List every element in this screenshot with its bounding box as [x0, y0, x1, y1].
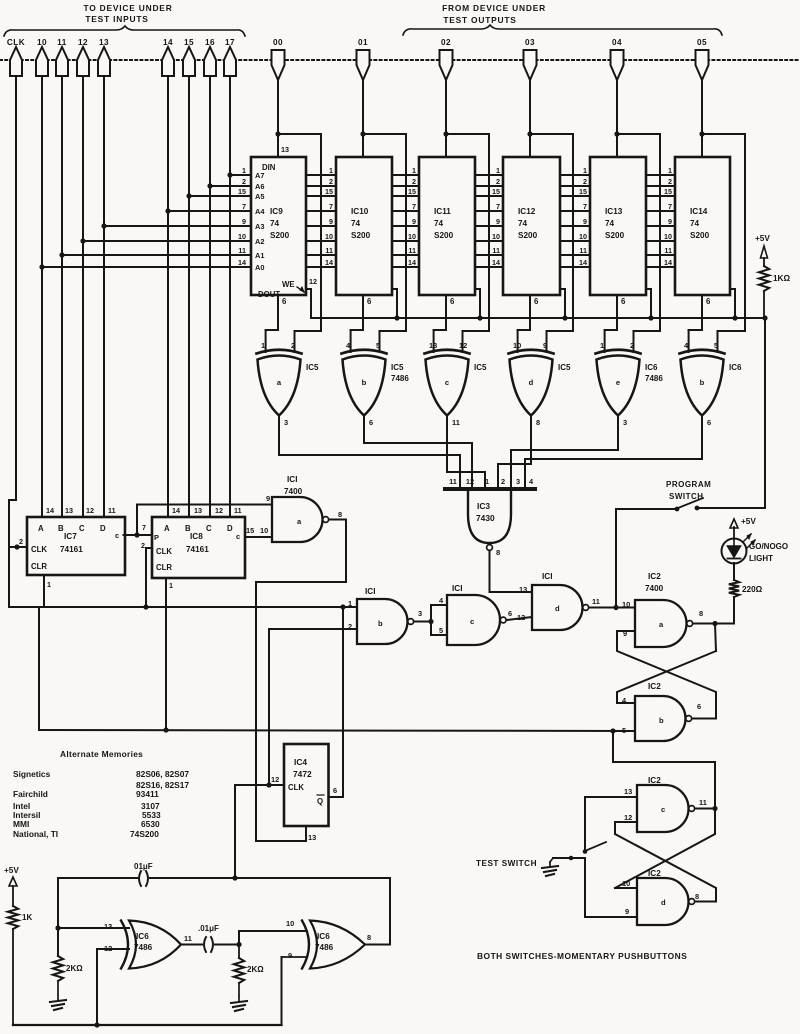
svg-text:7: 7 [412, 202, 416, 211]
svg-text:5: 5 [439, 626, 443, 635]
svg-text:b: b [659, 716, 664, 725]
svg-text:2: 2 [329, 177, 333, 186]
svg-text:10: 10 [238, 232, 246, 241]
svg-text:IC5: IC5 [391, 363, 404, 372]
svg-text:05: 05 [697, 38, 707, 47]
svg-text:12: 12 [215, 506, 223, 515]
svg-text:15: 15 [664, 187, 672, 196]
svg-text:IC2: IC2 [648, 869, 661, 878]
svg-text:13: 13 [194, 506, 202, 515]
svg-text:10: 10 [286, 919, 294, 928]
svg-text:7486: 7486 [391, 374, 409, 383]
svg-text:11: 11 [325, 246, 333, 255]
svg-text:IC8: IC8 [190, 532, 203, 541]
svg-text:A5: A5 [255, 192, 264, 201]
svg-text:11: 11 [579, 246, 587, 255]
svg-text:7: 7 [583, 202, 587, 211]
svg-text:IC13: IC13 [605, 207, 623, 216]
svg-text:CLR: CLR [31, 562, 47, 571]
svg-text:74: 74 [605, 219, 615, 228]
svg-text:8: 8 [367, 933, 371, 942]
svg-text:6: 6 [450, 297, 455, 306]
svg-text:14: 14 [492, 258, 500, 267]
svg-text:14: 14 [408, 258, 416, 267]
svg-text:10: 10 [622, 600, 630, 609]
svg-text:b: b [362, 378, 367, 387]
svg-text:13: 13 [429, 341, 437, 350]
svg-text:12: 12 [309, 277, 317, 286]
svg-text:74161: 74161 [186, 545, 209, 554]
svg-text:+5V: +5V [755, 234, 770, 243]
svg-text:IC6: IC6 [645, 363, 658, 372]
svg-text:Q: Q [317, 797, 323, 806]
svg-text:TEST OUTPUTS: TEST OUTPUTS [443, 15, 516, 25]
svg-text:A7: A7 [255, 171, 264, 180]
svg-text:d: d [555, 604, 560, 613]
svg-text:12: 12 [624, 813, 632, 822]
svg-text:IC6: IC6 [136, 932, 149, 941]
svg-text:11: 11 [492, 246, 500, 255]
svg-text:2: 2 [583, 177, 587, 186]
svg-text:IC2: IC2 [648, 682, 661, 691]
svg-text:IC10: IC10 [351, 207, 369, 216]
svg-text:8: 8 [695, 892, 699, 901]
svg-text:12: 12 [459, 341, 467, 350]
svg-text:2: 2 [242, 177, 246, 186]
svg-text:10: 10 [260, 526, 268, 535]
svg-text:11: 11 [592, 597, 600, 606]
svg-text:3: 3 [284, 418, 288, 427]
svg-text:8: 8 [536, 418, 540, 427]
svg-text:1: 1 [169, 581, 173, 590]
svg-text:9: 9 [543, 341, 547, 350]
svg-text:10: 10 [325, 232, 333, 241]
svg-text:1: 1 [261, 341, 265, 350]
svg-text:3: 3 [516, 477, 520, 486]
svg-text:13: 13 [281, 145, 289, 154]
svg-text:2KΩ: 2KΩ [247, 965, 264, 974]
svg-text:+5V: +5V [4, 866, 19, 875]
svg-text:c: c [470, 617, 474, 626]
svg-text:A: A [38, 524, 44, 533]
svg-text:9: 9 [266, 494, 270, 503]
svg-text:14: 14 [664, 258, 672, 267]
svg-text:MMI: MMI [13, 819, 29, 829]
svg-text:TO DEVICE UNDER: TO DEVICE UNDER [83, 3, 172, 13]
svg-text:D: D [227, 524, 233, 533]
svg-text:7486: 7486 [315, 943, 334, 952]
svg-text:1K: 1K [22, 913, 32, 922]
svg-text:13: 13 [65, 506, 73, 515]
svg-text:1: 1 [496, 166, 500, 175]
svg-text:7: 7 [668, 202, 672, 211]
svg-text:IC5: IC5 [306, 363, 319, 372]
svg-text:74: 74 [270, 219, 280, 228]
svg-text:IC6: IC6 [729, 363, 742, 372]
svg-text:2: 2 [630, 341, 634, 350]
svg-text:3: 3 [418, 609, 422, 618]
svg-text:2KΩ: 2KΩ [66, 964, 83, 973]
svg-text:9: 9 [496, 217, 500, 226]
svg-text:6: 6 [707, 418, 711, 427]
svg-text:IC2: IC2 [648, 776, 661, 785]
svg-text:6: 6 [508, 609, 512, 618]
svg-text:7: 7 [142, 523, 146, 532]
svg-text:74: 74 [351, 219, 361, 228]
svg-text:LIGHT: LIGHT [749, 554, 773, 563]
svg-text:220Ω: 220Ω [742, 585, 763, 594]
svg-text:15: 15 [325, 187, 333, 196]
svg-text:1: 1 [412, 166, 416, 175]
svg-text:10: 10 [579, 232, 587, 241]
svg-text:74S200: 74S200 [130, 829, 159, 839]
svg-text:1: 1 [485, 477, 489, 486]
svg-text:P: P [154, 533, 159, 542]
svg-text:IC4: IC4 [294, 757, 307, 767]
svg-text:IC11: IC11 [434, 207, 451, 216]
svg-text:b: b [700, 378, 705, 387]
svg-text:d: d [661, 898, 666, 907]
svg-text:15: 15 [246, 526, 254, 535]
svg-text:12: 12 [271, 775, 279, 784]
svg-text:15: 15 [492, 187, 500, 196]
svg-text:GO/NOGO: GO/NOGO [749, 542, 788, 551]
svg-text:11: 11 [238, 246, 246, 255]
svg-text:CLR: CLR [156, 563, 172, 572]
svg-text:C: C [206, 524, 212, 533]
svg-text:3: 3 [623, 418, 627, 427]
svg-text:S200: S200 [351, 231, 371, 240]
svg-text:13: 13 [519, 585, 527, 594]
svg-text:CLK: CLK [156, 547, 172, 556]
svg-text:14: 14 [325, 258, 333, 267]
svg-text:.01μF: .01μF [198, 924, 219, 933]
svg-text:11: 11 [184, 934, 192, 943]
svg-text:13: 13 [308, 833, 316, 842]
svg-text:S200: S200 [434, 231, 454, 240]
svg-text:00: 00 [273, 38, 283, 47]
svg-text:IC6: IC6 [317, 932, 330, 941]
svg-text:6: 6 [367, 297, 372, 306]
svg-text:12: 12 [517, 613, 525, 622]
svg-text:74: 74 [690, 219, 700, 228]
svg-text:c: c [445, 378, 449, 387]
svg-text:1: 1 [600, 341, 604, 350]
svg-text:9: 9 [583, 217, 587, 226]
svg-text:6530: 6530 [141, 819, 160, 829]
svg-text:2: 2 [291, 341, 295, 350]
svg-text:b: b [378, 619, 383, 628]
svg-text:S200: S200 [690, 231, 710, 240]
svg-text:A2: A2 [255, 237, 264, 246]
svg-text:1: 1 [668, 166, 672, 175]
svg-text:PROGRAM: PROGRAM [666, 480, 711, 489]
svg-text:04: 04 [612, 38, 622, 47]
svg-text:A6: A6 [255, 182, 264, 191]
svg-text:7: 7 [329, 202, 333, 211]
svg-text:1: 1 [348, 599, 352, 608]
svg-text:IC2: IC2 [648, 572, 661, 581]
svg-text:7472: 7472 [293, 769, 312, 779]
svg-text:6: 6 [369, 418, 373, 427]
svg-text:IC7: IC7 [64, 532, 77, 541]
svg-text:A0: A0 [255, 263, 264, 272]
svg-text:93411: 93411 [136, 789, 159, 799]
svg-text:Signetics: Signetics [13, 769, 51, 779]
svg-text:11: 11 [664, 246, 672, 255]
svg-text:7400: 7400 [645, 584, 664, 593]
svg-text:9: 9 [625, 907, 629, 916]
svg-text:74: 74 [434, 219, 444, 228]
svg-text:IC9: IC9 [270, 207, 283, 216]
svg-text:National, TI: National, TI [13, 829, 58, 839]
svg-text:7486: 7486 [134, 943, 153, 952]
svg-text:6: 6 [621, 297, 626, 306]
svg-text:9: 9 [412, 217, 416, 226]
svg-text:7486: 7486 [645, 374, 663, 383]
svg-text:8: 8 [338, 510, 342, 519]
svg-text:8: 8 [496, 548, 500, 557]
svg-text:9: 9 [288, 951, 292, 960]
svg-text:15: 15 [579, 187, 587, 196]
svg-text:7: 7 [242, 202, 246, 211]
svg-text:01μF: 01μF [134, 862, 153, 871]
svg-text:15: 15 [238, 187, 246, 196]
svg-text:S200: S200 [270, 231, 290, 240]
svg-text:10: 10 [513, 341, 521, 350]
svg-text:ICI: ICI [452, 584, 462, 593]
svg-text:ICI: ICI [365, 587, 375, 596]
svg-text:CLK: CLK [31, 545, 47, 554]
svg-text:A4: A4 [255, 207, 265, 216]
svg-text:2: 2 [496, 177, 500, 186]
svg-text:5: 5 [376, 341, 380, 350]
svg-text:WE: WE [282, 280, 295, 289]
svg-text:2: 2 [412, 177, 416, 186]
svg-text:ICI: ICI [542, 572, 552, 581]
svg-text:c: c [661, 805, 665, 814]
svg-text:13: 13 [104, 922, 112, 931]
svg-text:A1: A1 [255, 251, 264, 260]
svg-text:14: 14 [172, 506, 180, 515]
svg-text:FROM DEVICE UNDER: FROM DEVICE UNDER [442, 3, 546, 13]
svg-text:c: c [115, 531, 119, 540]
svg-text:9: 9 [668, 217, 672, 226]
svg-text:8: 8 [699, 609, 703, 618]
svg-text:6: 6 [706, 297, 711, 306]
svg-text:9: 9 [242, 217, 246, 226]
svg-text:11: 11 [108, 506, 116, 515]
svg-text:2: 2 [141, 541, 145, 550]
svg-text:S200: S200 [605, 231, 625, 240]
svg-text:e: e [616, 378, 620, 387]
svg-text:Fairchild: Fairchild [13, 789, 48, 799]
svg-text:DOUT: DOUT [258, 290, 280, 299]
svg-text:12: 12 [86, 506, 94, 515]
svg-text:01: 01 [358, 38, 368, 47]
svg-text:11: 11 [699, 798, 707, 807]
svg-text:6: 6 [333, 786, 337, 795]
svg-text:1KΩ: 1KΩ [773, 274, 790, 283]
svg-text:7: 7 [496, 202, 500, 211]
svg-text:13: 13 [624, 787, 632, 796]
svg-text:14: 14 [238, 258, 246, 267]
svg-text:2: 2 [501, 477, 505, 486]
svg-text:d: d [529, 378, 534, 387]
svg-text:ICI: ICI [287, 475, 297, 484]
svg-text:7430: 7430 [476, 513, 495, 523]
svg-text:A3: A3 [255, 222, 264, 231]
svg-text:C: C [79, 524, 85, 533]
svg-text:11: 11 [408, 246, 416, 255]
svg-text:82S06, 82S07: 82S06, 82S07 [136, 769, 189, 779]
svg-text:CLK: CLK [288, 783, 304, 792]
svg-text:10: 10 [664, 232, 672, 241]
svg-text:TEST INPUTS: TEST INPUTS [85, 14, 148, 24]
svg-text:14: 14 [46, 506, 54, 515]
svg-text:11: 11 [234, 506, 242, 515]
svg-text:6: 6 [282, 297, 287, 306]
svg-text:15: 15 [408, 187, 416, 196]
svg-text:IC14: IC14 [690, 207, 708, 216]
svg-text:10: 10 [408, 232, 416, 241]
svg-text:74161: 74161 [60, 545, 83, 554]
svg-text:7400: 7400 [284, 487, 303, 496]
svg-text:9: 9 [329, 217, 333, 226]
svg-text:S200: S200 [518, 231, 538, 240]
svg-text:5: 5 [714, 341, 718, 350]
svg-text:1: 1 [47, 580, 51, 589]
svg-text:10: 10 [492, 232, 500, 241]
svg-text:03: 03 [525, 38, 535, 47]
svg-text:11: 11 [452, 418, 460, 427]
svg-text:+5V: +5V [741, 517, 756, 526]
svg-text:A: A [164, 524, 170, 533]
svg-text:2: 2 [19, 537, 23, 546]
svg-text:IC12: IC12 [518, 207, 536, 216]
svg-text:Alternate Memories: Alternate Memories [60, 749, 143, 759]
svg-text:1: 1 [329, 166, 333, 175]
svg-text:TEST SWITCH: TEST SWITCH [476, 859, 537, 868]
svg-text:1: 1 [583, 166, 587, 175]
svg-text:6: 6 [534, 297, 539, 306]
svg-text:1: 1 [242, 166, 246, 175]
svg-text:IC3: IC3 [477, 501, 490, 511]
svg-text:BOTH SWITCHES-MOMENTARY PUSHBU: BOTH SWITCHES-MOMENTARY PUSHBUTTONS [477, 951, 687, 961]
svg-text:12: 12 [466, 477, 474, 486]
svg-text:D: D [100, 524, 106, 533]
svg-text:IC5: IC5 [558, 363, 571, 372]
svg-text:2: 2 [668, 177, 672, 186]
svg-text:02: 02 [441, 38, 451, 47]
svg-text:11: 11 [449, 477, 457, 486]
svg-text:14: 14 [579, 258, 587, 267]
svg-text:6: 6 [697, 702, 701, 711]
svg-text:c: c [236, 532, 240, 541]
svg-text:74: 74 [518, 219, 528, 228]
svg-text:IC5: IC5 [474, 363, 487, 372]
